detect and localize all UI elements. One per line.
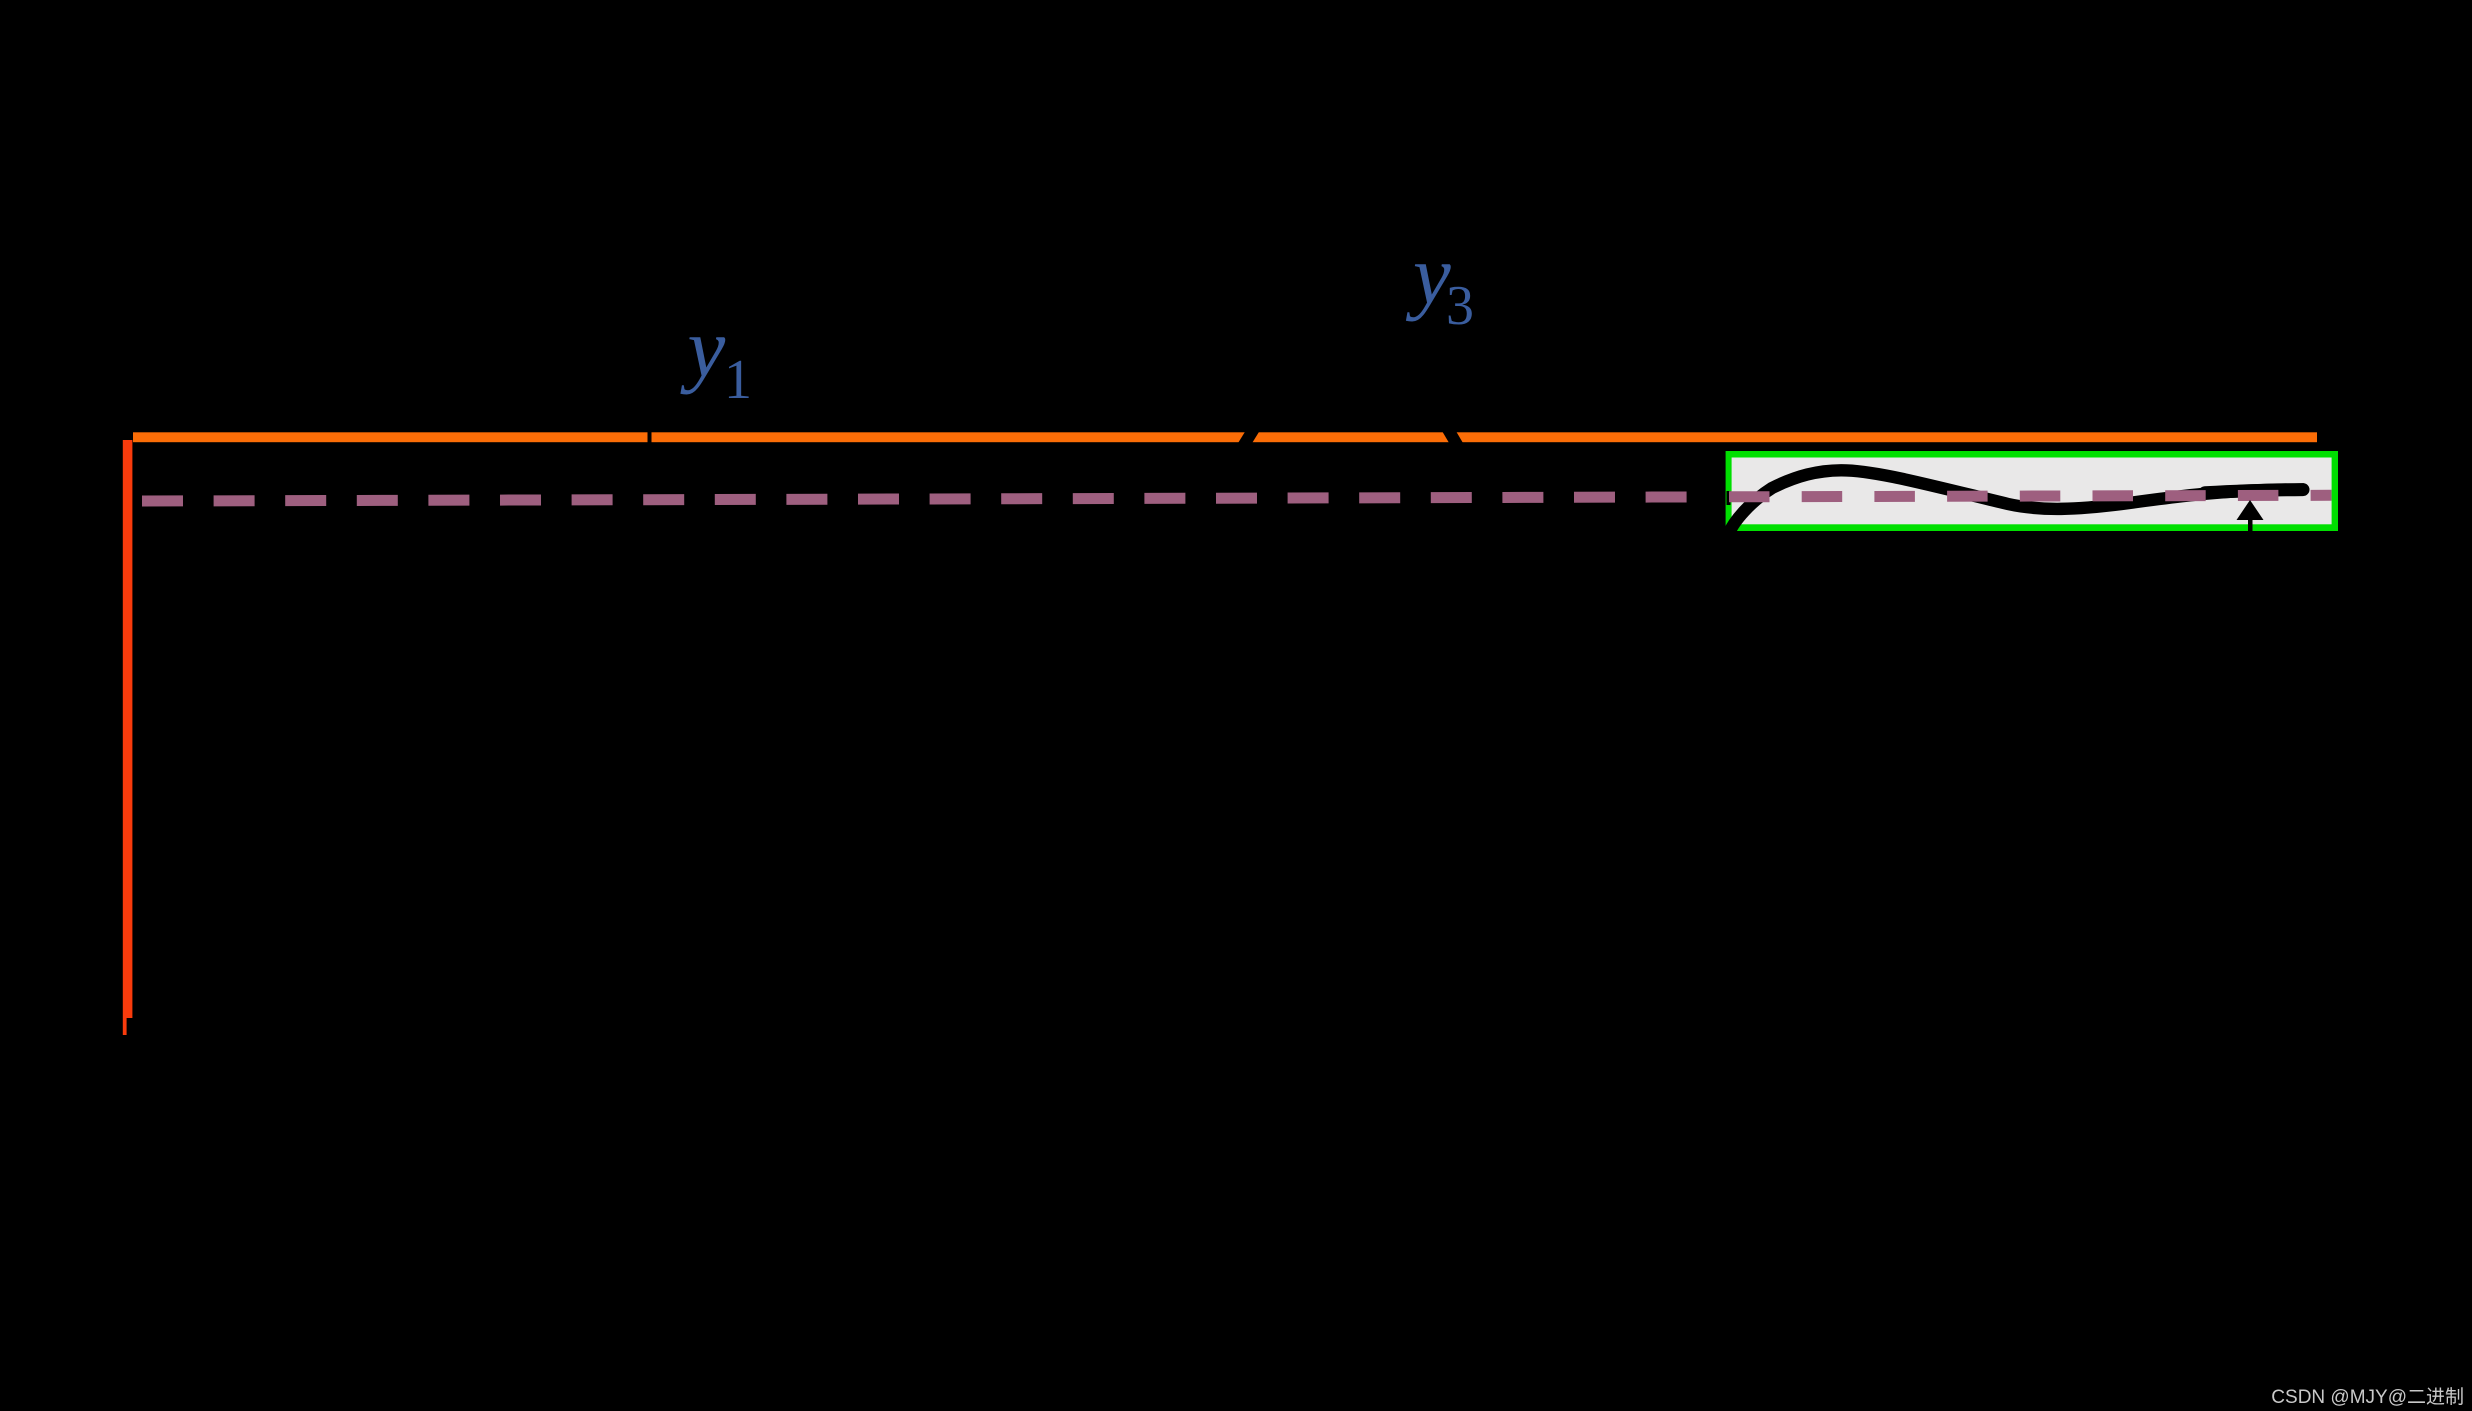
dashed line (left segment) <box>142 497 1712 501</box>
brace right tail slash <box>1446 426 1459 448</box>
svg-text:1: 1 <box>724 349 752 411</box>
curve pen blob on left border <box>1727 491 1731 505</box>
dashed line (right segment inside box) <box>1729 495 2332 497</box>
svg-text:CSDN @MJY@二进制: CSDN @MJY@二进制 <box>2271 1386 2464 1408</box>
arrow head <box>2237 500 2264 520</box>
brace left tail slash <box>1242 427 1255 448</box>
curve (black wavy stroke inside green box) <box>1729 470 2304 533</box>
tick on orange line <box>648 430 652 444</box>
red vertical axis <box>123 440 133 1035</box>
arrow stem <box>2248 519 2253 536</box>
orange horizontal line <box>133 432 2317 442</box>
green box <box>1726 451 2338 531</box>
curve right thick section <box>2205 490 2303 493</box>
svg-text:3: 3 <box>1446 275 1474 337</box>
red vertical axis taper notch <box>127 1018 133 1035</box>
